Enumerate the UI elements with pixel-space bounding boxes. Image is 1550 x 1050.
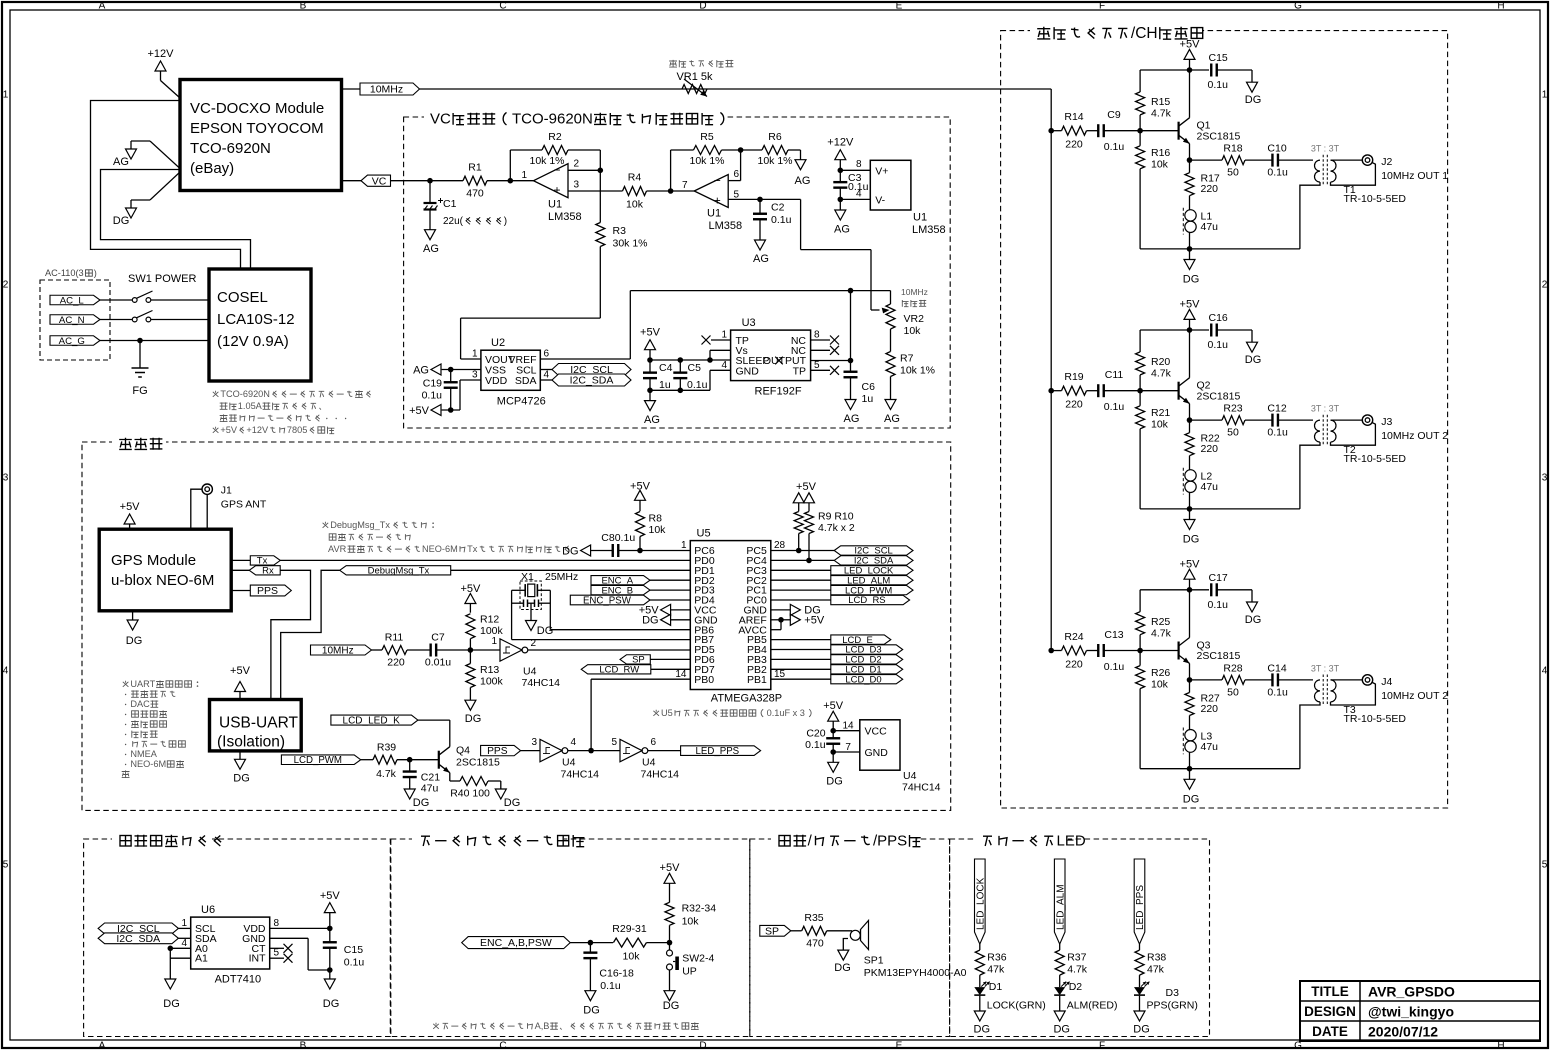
connector J2 output bbox=[1362, 155, 1448, 182]
svg-text:R13: R13 bbox=[480, 664, 499, 676]
wire +5V rail C4 C5 bbox=[650, 359, 710, 361]
svg-text:2020/07/12: 2020/07/12 bbox=[1368, 1024, 1438, 1040]
svg-text:H: H bbox=[1497, 1, 1504, 12]
ground DG at C15 bbox=[1245, 82, 1262, 106]
svg-text:AG: AG bbox=[413, 364, 429, 376]
note UART communication contents bbox=[122, 679, 199, 778]
svg-text:V-: V- bbox=[875, 195, 885, 207]
svg-text:4: 4 bbox=[3, 666, 9, 677]
resistor R3 30k 1% bbox=[596, 170, 648, 318]
svg-text:U4: U4 bbox=[562, 757, 576, 769]
inductor L2 47u bbox=[1183, 468, 1218, 509]
wire AC_N to switch bbox=[100, 319, 132, 321]
capacitor C14 0.1u coupling bbox=[1245, 663, 1313, 699]
svg-text:470: 470 bbox=[466, 188, 484, 200]
svg-text:1: 1 bbox=[521, 170, 527, 181]
wire R35 to speaker bbox=[827, 930, 852, 932]
label R9 R10 4.7k x 2 bbox=[818, 511, 855, 535]
svg-text:100k: 100k bbox=[480, 676, 504, 688]
no-connect X on U3 TP5 bbox=[811, 366, 839, 375]
junction C21 tap bbox=[407, 757, 413, 763]
junction C4 top bbox=[647, 357, 653, 363]
svg-text:INT: INT bbox=[249, 953, 267, 965]
inverter U4 gate 1-2 bbox=[491, 636, 560, 689]
wire feedback via R2 bbox=[510, 150, 600, 181]
crystal X1 25MHz resonator bbox=[512, 571, 579, 621]
ground DG below C21 bbox=[404, 789, 429, 809]
ground AG below R6 bbox=[795, 160, 811, 187]
svg-text:C1: C1 bbox=[443, 198, 457, 210]
wire GPS Tx to U5 PD0 bbox=[280, 559, 690, 561]
svg-text:220: 220 bbox=[1065, 139, 1083, 151]
svg-text:SP: SP bbox=[765, 925, 779, 937]
ground DG at C16 bbox=[1245, 342, 1262, 366]
svg-text:10k: 10k bbox=[649, 524, 667, 536]
ground DG below C16-18 bbox=[583, 991, 600, 1017]
svg-text:Q4: Q4 bbox=[456, 745, 470, 757]
svg-text:5: 5 bbox=[611, 737, 617, 748]
label C1 value bbox=[443, 198, 507, 227]
wire AG to VSS bbox=[442, 369, 481, 371]
svg-text:+5V: +5V bbox=[640, 327, 661, 339]
junction AREF node bbox=[778, 617, 784, 623]
wire to V+ pin8 bbox=[840, 169, 870, 171]
svg-text:DG: DG bbox=[163, 998, 180, 1010]
svg-text:0.1u: 0.1u bbox=[1208, 339, 1229, 351]
wire R1 to op-amp output bbox=[487, 180, 534, 182]
transistor Q1 2SC1815 bbox=[1179, 70, 1241, 160]
svg-text:0.1u: 0.1u bbox=[600, 980, 621, 992]
IC U6 ADT7410 bbox=[191, 904, 270, 985]
resistor R29-31 10k bbox=[612, 923, 647, 963]
section box 出力バッファ/CH間絶縁 bbox=[1001, 22, 1448, 808]
junction switch node bbox=[667, 940, 673, 946]
resistor R22 220 bbox=[1185, 420, 1220, 470]
wire +5V collector rail bbox=[1140, 329, 1189, 331]
svg-text:R8: R8 bbox=[649, 513, 663, 525]
svg-text:1: 1 bbox=[3, 90, 9, 101]
wire A0 A1 to DG bbox=[170, 948, 190, 979]
svg-text:G: G bbox=[1294, 1, 1302, 12]
module GPS u-blox NEO-6M bbox=[99, 529, 231, 611]
wire VC-DOCXO supply + to COSEL bbox=[91, 101, 241, 270]
svg-text:DG: DG bbox=[1183, 534, 1200, 546]
inductor L1 47u bbox=[1183, 208, 1218, 249]
svg-text:DG: DG bbox=[663, 1000, 680, 1012]
svg-text:1.05A: 1.05A bbox=[238, 401, 263, 411]
svg-text:+5V: +5V bbox=[230, 665, 251, 677]
junction rail to R14 bbox=[1048, 128, 1054, 134]
wire to U4 GND bbox=[833, 751, 860, 753]
svg-text:LCD_D0: LCD_D0 bbox=[845, 674, 881, 685]
svg-text:ALM(RED): ALM(RED) bbox=[1067, 1000, 1118, 1012]
svg-text:PB0: PB0 bbox=[694, 674, 714, 686]
speaker SP1 PKM13EPYH4000-A0 bbox=[850, 921, 966, 980]
ground DG channel rail bbox=[1183, 509, 1200, 546]
resistor R32-34 10k bbox=[665, 902, 716, 942]
svg-text:+5V: +5V bbox=[1180, 39, 1201, 51]
svg-text:NMEA: NMEA bbox=[130, 749, 157, 759]
svg-text:47k: 47k bbox=[1147, 964, 1165, 976]
svg-text:DG: DG bbox=[562, 545, 579, 557]
svg-text:B: B bbox=[300, 1040, 307, 1050]
svg-text:AC_L: AC_L bbox=[60, 295, 85, 306]
svg-text:DG: DG bbox=[1245, 354, 1262, 366]
wire pin3 to R4 bbox=[568, 190, 623, 192]
power +12V at VC-DOCXO bbox=[148, 48, 181, 98]
svg-text:28: 28 bbox=[774, 540, 786, 551]
svg-text:10k: 10k bbox=[626, 199, 644, 211]
label 出力レベル調整 bbox=[669, 60, 677, 67]
resistor R20 4.7k bbox=[1136, 330, 1172, 391]
svg-text:C14: C14 bbox=[1267, 663, 1286, 675]
potentiometer VR2 wiper arrow bbox=[882, 308, 890, 314]
junction +5V node bbox=[1187, 587, 1193, 593]
junction emitter node bbox=[1187, 677, 1193, 683]
svg-text:DG: DG bbox=[1053, 1024, 1070, 1036]
wire secondary to connector bbox=[1331, 159, 1363, 161]
svg-text:ENC_PSW: ENC_PSW bbox=[583, 595, 632, 606]
wire R7 to AG bbox=[890, 377, 892, 400]
resistor R28 50 bbox=[1190, 663, 1246, 699]
svg-text:+5V: +5V bbox=[1180, 299, 1201, 311]
node ENC_A flag bbox=[591, 575, 690, 586]
svg-text:15: 15 bbox=[774, 669, 786, 680]
switch SW2-4 UP pushbutton bbox=[667, 943, 715, 978]
svg-text:6: 6 bbox=[734, 169, 740, 180]
svg-text:4: 4 bbox=[856, 189, 862, 200]
svg-text:C: C bbox=[499, 1040, 506, 1050]
svg-text:74HC14: 74HC14 bbox=[522, 677, 561, 689]
module USB-UART isolation bbox=[210, 700, 302, 751]
power +5V at R32-34 bbox=[660, 862, 681, 902]
svg-text:D1: D1 bbox=[989, 981, 1003, 993]
svg-text:R5: R5 bbox=[700, 131, 714, 143]
svg-text:(12V 0.9A): (12V 0.9A) bbox=[217, 333, 289, 350]
power +5V at USB-UART bbox=[230, 665, 251, 700]
svg-text:AG: AG bbox=[795, 175, 811, 187]
resistor R38 47k bbox=[1135, 944, 1166, 987]
wire to U4 VCC bbox=[833, 730, 860, 732]
svg-text:1: 1 bbox=[491, 636, 497, 647]
node I2C_SCL flag at U5 bbox=[834, 546, 913, 555]
svg-text:R3: R3 bbox=[613, 225, 627, 237]
resistor R21 10k bbox=[1136, 391, 1171, 509]
wire switch to COSEL N bbox=[151, 319, 209, 321]
section box ロータリエンコーダ入力 bbox=[391, 831, 750, 1037]
svg-text:0.1u: 0.1u bbox=[1104, 661, 1125, 673]
svg-text:R36: R36 bbox=[987, 952, 1006, 964]
svg-text:C10: C10 bbox=[1267, 143, 1286, 155]
capacitor C8 0.1u bbox=[591, 532, 691, 557]
svg-text:C12: C12 bbox=[1267, 403, 1286, 415]
svg-text:10MHz: 10MHz bbox=[322, 645, 354, 656]
no-connect X inside U3 sleep-output bbox=[775, 357, 783, 365]
node LCD_D2 flag bbox=[771, 655, 903, 666]
capacitor C5 0.1u bbox=[673, 360, 707, 391]
svg-text:C19: C19 bbox=[423, 378, 442, 390]
svg-text:2SC1815: 2SC1815 bbox=[456, 757, 500, 769]
svg-text:C15: C15 bbox=[344, 944, 363, 956]
wire primary return bbox=[1300, 182, 1320, 249]
svg-text:LCA10S-12: LCA10S-12 bbox=[217, 311, 295, 328]
potentiometer VR2 10k bbox=[886, 291, 924, 337]
node ENC_A,B,PSW flag bbox=[462, 937, 571, 949]
no-connect X on U3 TP1 bbox=[702, 336, 731, 345]
resistor R35 470 bbox=[791, 912, 827, 950]
junction +5V node bbox=[1187, 327, 1193, 333]
svg-text:A,B: A,B bbox=[535, 1021, 550, 1031]
wire emitter ground rail bbox=[1140, 768, 1300, 770]
svg-text:EPSON TOYOCOM: EPSON TOYOCOM bbox=[190, 120, 324, 137]
junction emitter node bbox=[1187, 157, 1193, 163]
svg-text:DG: DG bbox=[974, 1024, 991, 1036]
svg-text:NEO-6M: NEO-6M bbox=[422, 544, 458, 554]
svg-text:2SC1815: 2SC1815 bbox=[1197, 650, 1241, 662]
svg-text:R28: R28 bbox=[1223, 663, 1242, 675]
wire to V- pin4 bbox=[840, 198, 870, 200]
svg-text:7: 7 bbox=[682, 180, 688, 191]
ground AG below C4 bbox=[644, 390, 660, 426]
wire SLEEP to rail bbox=[710, 359, 731, 361]
svg-text:3T : 3T: 3T : 3T bbox=[1311, 664, 1340, 674]
junction A0 A1 node bbox=[168, 946, 174, 952]
node LCD_PWM flag input bbox=[281, 755, 360, 765]
svg-text:10MHz: 10MHz bbox=[901, 287, 928, 297]
svg-text:R25: R25 bbox=[1151, 616, 1170, 628]
power +5V channel Q1 bbox=[1180, 39, 1201, 70]
svg-text:LCD_RW: LCD_RW bbox=[599, 665, 639, 676]
svg-text:C16: C16 bbox=[1209, 312, 1228, 324]
node PPS flag bbox=[231, 585, 291, 597]
junction ground rail bbox=[1187, 246, 1193, 252]
svg-text:R18: R18 bbox=[1223, 143, 1242, 155]
svg-text:B: B bbox=[300, 1, 307, 12]
wire VREF rail bbox=[540, 291, 890, 359]
IC U2 MCP4726 bbox=[481, 337, 546, 407]
capacitor C16-18 0.1u bbox=[583, 943, 634, 992]
svg-text:J1: J1 bbox=[221, 485, 232, 497]
resistor R15 4.7k bbox=[1136, 70, 1172, 131]
section box 処理部 bbox=[82, 434, 951, 810]
power +5V at U4 bbox=[823, 700, 844, 731]
svg-text:A: A bbox=[99, 1040, 106, 1050]
svg-text:VC: VC bbox=[372, 175, 387, 187]
ground DG below D3 bbox=[1133, 996, 1150, 1036]
capacitor C9 0.1u bbox=[1087, 109, 1141, 153]
svg-text:5: 5 bbox=[3, 860, 9, 871]
svg-text:LED: LED bbox=[1057, 833, 1086, 850]
svg-text:3: 3 bbox=[574, 180, 580, 191]
svg-text:TCO-6920N: TCO-6920N bbox=[190, 140, 271, 157]
ground DG below USB-UART bbox=[233, 751, 250, 785]
svg-text:VC: VC bbox=[430, 111, 451, 128]
wire 10MHz from VC-DOCXO bbox=[342, 88, 361, 90]
connector AC-110 3-pole box bbox=[40, 268, 110, 360]
junction C5 bottom bbox=[678, 388, 684, 394]
title block table bbox=[1300, 981, 1540, 1041]
op-amp U1 second LM358 bbox=[682, 169, 742, 232]
node LCD_D3 flag bbox=[771, 645, 903, 656]
capacitor C15 0.1u bypass bbox=[1190, 52, 1253, 91]
svg-text:AC_N: AC_N bbox=[59, 315, 85, 326]
junction op-amp pin2 node bbox=[598, 168, 604, 174]
svg-text:220: 220 bbox=[1201, 183, 1219, 195]
capacitor C19 0.1u bbox=[422, 370, 458, 411]
svg-text:8: 8 bbox=[274, 918, 280, 929]
junction pin5 C2 tap bbox=[757, 197, 763, 203]
svg-text:4.7k: 4.7k bbox=[1151, 628, 1172, 640]
capacitor C11 0.1u bbox=[1087, 369, 1141, 413]
node 10MHz flag bbox=[360, 83, 420, 95]
svg-text:DG: DG bbox=[126, 635, 143, 647]
svg-text:AG: AG bbox=[844, 413, 860, 425]
ground DG below U6 bbox=[163, 979, 180, 1010]
svg-text:0.1u: 0.1u bbox=[805, 739, 826, 751]
svg-text:C7: C7 bbox=[431, 632, 445, 644]
LED D1 LOCK(GRN) bbox=[974, 981, 1045, 1012]
svg-text:0.1uF x 3: 0.1uF x 3 bbox=[767, 708, 805, 718]
wire emitter ground rail bbox=[1140, 248, 1300, 250]
wire U6 GND route bbox=[270, 938, 330, 970]
svg-text:4.7k: 4.7k bbox=[376, 768, 397, 780]
junction +5V node bbox=[1187, 67, 1193, 73]
svg-text:R23: R23 bbox=[1223, 403, 1242, 415]
svg-text:COSEL: COSEL bbox=[217, 289, 268, 306]
svg-text:1u: 1u bbox=[862, 393, 874, 405]
svg-text:10MHz OUT 2: 10MHz OUT 2 bbox=[1381, 430, 1448, 442]
svg-text:DATE: DATE bbox=[1312, 1024, 1348, 1039]
svg-text:TP: TP bbox=[793, 365, 806, 377]
node LCD_LED_K flag bbox=[331, 715, 418, 725]
svg-text:R24: R24 bbox=[1064, 631, 1083, 643]
svg-text:U5: U5 bbox=[697, 528, 711, 540]
wire R3 to U2 VOUT bbox=[461, 318, 601, 359]
svg-text:SP1: SP1 bbox=[864, 955, 884, 967]
junction R9 on PC5 bbox=[796, 548, 802, 554]
resistor R14 220 bbox=[1051, 111, 1086, 151]
svg-text:C2: C2 bbox=[771, 202, 785, 214]
transformer T2 TR-10-5-5ED bbox=[1311, 404, 1407, 466]
junction feedback R5 tap bbox=[668, 188, 674, 194]
svg-text:DG: DG bbox=[323, 998, 340, 1010]
svg-text:10MHz OUT 2: 10MHz OUT 2 bbox=[1381, 690, 1448, 702]
svg-text:10k: 10k bbox=[682, 916, 700, 928]
svg-text:4: 4 bbox=[1542, 666, 1548, 677]
svg-text:+5V: +5V bbox=[796, 481, 817, 493]
svg-text:D3: D3 bbox=[1166, 987, 1180, 999]
wire inverter out to U5 PD5 bbox=[528, 649, 691, 651]
ground DG below X1 bbox=[526, 621, 554, 638]
ground DG below R40 bbox=[495, 789, 520, 809]
wire Vs to +5V rail bbox=[710, 350, 731, 360]
svg-text:(Isolation): (Isolation) bbox=[217, 734, 285, 751]
node AC_N flag bbox=[50, 315, 100, 325]
svg-text:5: 5 bbox=[814, 360, 820, 371]
svg-text:DebugMsg_Tx: DebugMsg_Tx bbox=[368, 566, 430, 577]
junction C19 top bbox=[448, 367, 454, 373]
svg-text:U4: U4 bbox=[523, 666, 537, 678]
wire R29-31 to switch node bbox=[646, 942, 669, 944]
op-amp U1 first LM358 bbox=[521, 159, 581, 224]
svg-text:SW1 POWER: SW1 POWER bbox=[128, 273, 197, 285]
resistor R19 220 bbox=[1051, 371, 1086, 411]
svg-text:AC_G: AC_G bbox=[59, 336, 85, 347]
resistor R2 10k 1% bbox=[529, 131, 568, 167]
node PPS flag input bbox=[481, 745, 521, 755]
power +5V at R12 bbox=[460, 583, 481, 613]
junction rail to R19 bbox=[1048, 388, 1054, 394]
capacitor C1 22u tantalum bbox=[424, 181, 444, 230]
junction VC-R1-C1 bbox=[427, 178, 433, 184]
ground AG at VC-DOCXO bbox=[113, 141, 180, 169]
wire secondary to connector bbox=[1331, 419, 1363, 421]
resistor R40 100 bbox=[450, 773, 501, 800]
svg-text:LED_PPS: LED_PPS bbox=[696, 746, 740, 757]
svg-text:PB1: PB1 bbox=[747, 674, 767, 686]
svg-text:C13: C13 bbox=[1104, 629, 1123, 641]
svg-text:DG: DG bbox=[504, 797, 521, 809]
section box ステータスLED bbox=[950, 831, 1210, 1037]
wire primary return bbox=[1300, 702, 1320, 769]
svg-text:VCC: VCC bbox=[865, 726, 888, 738]
junction R10 on PC4 bbox=[806, 558, 812, 564]
svg-text:R26: R26 bbox=[1151, 667, 1170, 679]
svg-text:E: E bbox=[896, 1040, 903, 1050]
transistor Q4 2SC1815 bbox=[439, 745, 500, 773]
svg-text:R29-31: R29-31 bbox=[612, 923, 647, 935]
svg-text:R16: R16 bbox=[1151, 147, 1170, 159]
svg-text:AG: AG bbox=[753, 253, 769, 265]
junction rail to R24 bbox=[1048, 648, 1054, 654]
svg-text:A1: A1 bbox=[195, 953, 208, 965]
node ENC_B flag bbox=[591, 585, 690, 596]
node LCD_PWM flag at U5 bbox=[771, 585, 913, 596]
capacitor C17 0.1u bypass bbox=[1190, 572, 1253, 611]
resistor R8 10k bbox=[636, 512, 667, 551]
svg-text:Rx: Rx bbox=[262, 566, 274, 577]
ground DG channel rail bbox=[1183, 769, 1200, 806]
power +5V at U6 bbox=[320, 890, 341, 928]
junction base node Q2 bbox=[1137, 388, 1143, 394]
junction VDD C15 node bbox=[327, 926, 333, 932]
svg-text:C17: C17 bbox=[1209, 572, 1228, 584]
svg-text:0.1u: 0.1u bbox=[1267, 167, 1288, 179]
svg-text:0.1u: 0.1u bbox=[422, 390, 443, 402]
svg-text:R19: R19 bbox=[1064, 371, 1083, 383]
svg-text:U4: U4 bbox=[642, 757, 656, 769]
svg-text:): ) bbox=[94, 268, 97, 278]
svg-text:R32-34: R32-34 bbox=[682, 903, 717, 915]
svg-text:AG: AG bbox=[644, 414, 660, 426]
junction PB0 tap bbox=[588, 748, 594, 754]
svg-text:10MHz: 10MHz bbox=[370, 84, 403, 96]
svg-text:J2: J2 bbox=[1381, 156, 1392, 168]
svg-text:DG: DG bbox=[834, 962, 851, 974]
svg-text:TR-10-5-5ED: TR-10-5-5ED bbox=[1344, 193, 1407, 205]
node Rx flag bbox=[231, 566, 280, 577]
svg-text:7: 7 bbox=[845, 742, 851, 753]
svg-text:LCD_LED_K: LCD_LED_K bbox=[343, 716, 401, 727]
wire PC4 to I2C_SDA bbox=[771, 559, 834, 561]
svg-text:DAC: DAC bbox=[130, 699, 150, 709]
ground AG below C2 bbox=[753, 240, 769, 265]
svg-text:4.7k: 4.7k bbox=[1151, 108, 1172, 120]
wire 10MHz to output buffer bbox=[420, 89, 1052, 651]
wire primary return bbox=[1300, 442, 1320, 509]
capacitor C10 0.1u coupling bbox=[1245, 143, 1313, 179]
svg-text:R1: R1 bbox=[468, 162, 482, 174]
